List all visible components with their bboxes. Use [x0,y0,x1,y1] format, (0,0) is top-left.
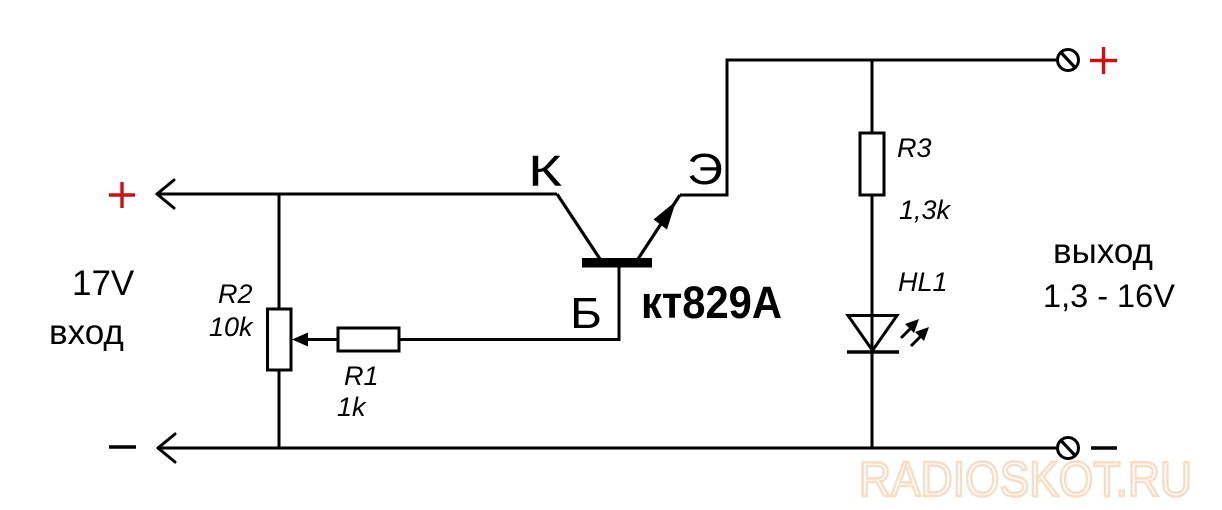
svg-text:К: К [528,147,562,196]
wire: top output rail [726,59,1057,62]
terminal: output negative [1058,438,1079,459]
transistor emitter line [638,195,680,259]
svg-text:1k: 1k [337,392,367,422]
wire: emitter riser [726,60,729,197]
arrow: input negative lead arrowhead [158,434,175,462]
transistor collector line [557,194,600,259]
transistor emitter arrowhead [654,201,677,230]
minus marker: output negative [1091,446,1117,450]
resistor R1 body [338,328,399,351]
wire: R2 top lead [278,194,281,310]
LED HL1 cathode bar [847,350,899,353]
wire: R2 bottom lead [278,370,281,448]
svg-text:RADIOSKOT.RU: RADIOSKOT.RU [859,452,1192,507]
wire: base vertical [618,265,621,341]
svg-text:выход: выход [1053,232,1153,271]
svg-text:HL1: HL1 [898,267,948,297]
transistor VT kт829A base bar [582,258,652,268]
wire: emitter horizontal [680,194,727,197]
svg-text:R2: R2 [218,279,253,309]
svg-text:R3: R3 [897,133,932,163]
wire: bottom rail [158,447,1056,450]
svg-text:R1: R1 [344,361,379,391]
potentiometer R2 body [268,309,292,370]
plus marker: input positive [109,182,135,208]
arrow: input positive lead arrowhead [157,180,174,208]
plus marker: output positive [1090,47,1117,74]
svg-text:Б: Б [570,289,602,338]
LED light arrow 2 [911,327,929,346]
svg-text:17V: 17V [72,264,135,303]
wire: R3 to LED to bottom rail [871,195,874,448]
svg-text:1,3k: 1,3k [899,195,952,225]
svg-text:10k: 10k [209,312,254,342]
svg-text:кт829А: кт829А [641,277,782,328]
wire: R1 to base [399,338,619,341]
resistor R3 body [860,133,884,195]
wiper arrow of R2 [292,333,338,347]
wire: top input rail [157,193,557,196]
LED light arrow 1 [901,319,919,338]
svg-text:Э: Э [687,145,723,194]
LED HL1 triangle [848,316,897,351]
svg-text:вход: вход [49,313,124,352]
terminal: output positive [1058,50,1079,71]
wire: R3 top lead [871,60,874,134]
minus marker: input negative [109,445,136,449]
svg-text:1,3 - 16V: 1,3 - 16V [1043,278,1175,314]
